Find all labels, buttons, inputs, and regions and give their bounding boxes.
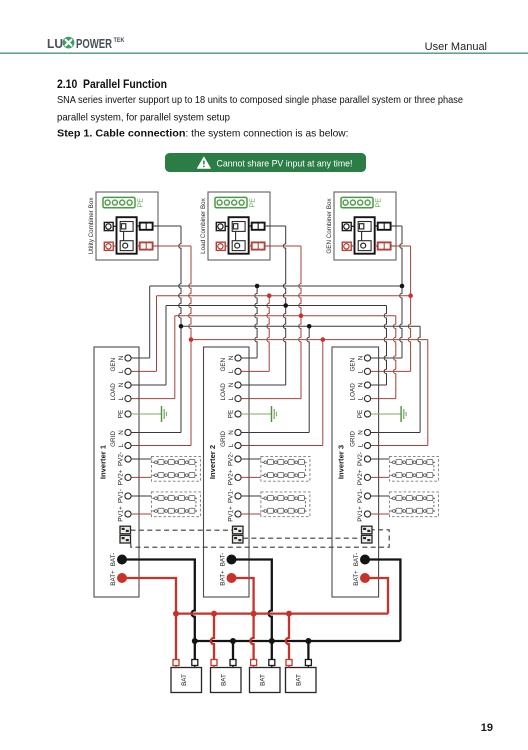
- svg-text:N: N: [228, 430, 235, 435]
- battery BAT2 negative terminal: [230, 660, 236, 668]
- svg-text:PV2-: PV2-: [357, 452, 364, 466]
- svg-text:BAT+: BAT+: [110, 570, 117, 586]
- Inverter 1 terminal BAT-: [110, 553, 127, 567]
- svg-text:PE: PE: [357, 410, 364, 418]
- Inverter 2 terminal BAT+: [220, 570, 237, 586]
- PV1 array inverter 2 string row 1: [262, 496, 307, 501]
- svg-text:PE: PE: [228, 410, 235, 418]
- Inverter 1 terminal BAT+: [110, 570, 127, 586]
- svg-text:L: L: [118, 369, 125, 373]
- svg-text:BAT-: BAT-: [220, 553, 227, 567]
- svg-text:BAT: BAT: [296, 674, 303, 686]
- Inverter 3 terminal L at y=398.6: [358, 396, 371, 402]
- PV2 array inverter 2 series link: [304, 465, 306, 472]
- svg-text:PV2+: PV2+: [357, 469, 364, 485]
- Inverter 3 terminal BAT-: [353, 553, 370, 567]
- svg-text:GEN: GEN: [220, 357, 227, 371]
- Inverter 1 terminal N at y=385.0: [118, 382, 131, 388]
- Inverter 3 terminal L at y=371.4: [358, 368, 371, 374]
- Inverter 1 terminal N at y=432.5: [118, 429, 131, 435]
- comm cable inverter1 portA to inverter2 portA: [131, 529, 233, 531]
- Inverter 3 terminal PV2+ at y=477.4: [357, 469, 370, 485]
- Inverter 3 parallel comm port A: [362, 526, 373, 534]
- svg-text:User Manual: User Manual: [425, 41, 487, 53]
- Inverter 3 terminal PE at y=414.0: [357, 410, 370, 418]
- wire net GEN-L: bus and drops: [131, 246, 413, 371]
- PV2 array inverter 2 string row 1: [262, 460, 307, 465]
- battery BAT1 positive terminal: [173, 660, 179, 668]
- PV2 array inverter 2 wires to inverter: [241, 459, 261, 477]
- battery BAT3 negative terminal: [269, 660, 275, 668]
- Inverter 2 terminal PV1+ at y=514.0: [228, 506, 241, 522]
- Inverter 2 terminal L at y=371.4: [228, 368, 241, 374]
- Inverter 2 terminal PE at y=414.0: [228, 410, 241, 418]
- utility combiner box: [96, 192, 158, 260]
- svg-text:LOAD: LOAD: [220, 383, 227, 401]
- svg-text:Load Combiner Box: Load Combiner Box: [200, 197, 207, 254]
- Inverter 3 terminal PV2- at y=459.0: [357, 452, 370, 466]
- PV1 array inverter 3 wires to inverter: [371, 496, 390, 514]
- GEN Combiner Box input connector N: [342, 222, 354, 230]
- Inverter 2 terminal BAT-: [220, 553, 237, 567]
- svg-text:N: N: [358, 355, 365, 360]
- wire inverter3 BAT- to bus: [365, 560, 400, 642]
- svg-text:BAT-: BAT-: [110, 553, 117, 567]
- Inverter 3 terminal PV1+ at y=514.0: [357, 506, 370, 522]
- battery BAT3: [250, 668, 281, 693]
- Load Combiner Box PE terminal bar: [215, 197, 257, 207]
- svg-text:N: N: [228, 382, 235, 387]
- Inverter 1 parallel comm port A: [120, 526, 131, 534]
- Load Combiner Box input connector N: [216, 222, 228, 230]
- svg-text:N: N: [358, 382, 365, 387]
- svg-text:GRID: GRID: [350, 431, 357, 447]
- svg-text:PV2-: PV2-: [228, 452, 235, 466]
- svg-text:PV2-: PV2-: [118, 452, 125, 466]
- PV2 array inverter 1 series link: [195, 465, 197, 472]
- Inverter 2 terminal L at y=398.6: [228, 396, 241, 402]
- svg-text:PE: PE: [136, 198, 145, 208]
- Inverter 1 parallel comm port B: [120, 535, 131, 543]
- svg-text:Inverter 2: Inverter 2: [208, 445, 217, 479]
- svg-text:PV1-: PV1-: [228, 489, 235, 503]
- battery BAT1: [171, 668, 202, 693]
- battery BAT2: [211, 668, 242, 693]
- svg-text:POWER: POWER: [76, 37, 112, 51]
- Load Combiner Box output terminal L: [249, 242, 270, 249]
- svg-text:BAT+: BAT+: [220, 570, 227, 586]
- svg-text:GEN Combiner Box: GEN Combiner Box: [326, 198, 333, 254]
- battery BAT4 positive terminal: [286, 660, 292, 668]
- PV2 array inverter 3 string row 1: [390, 460, 435, 465]
- Load Combiner Box input connector L: [216, 242, 228, 250]
- Inverter 1 PE wire and ground: [131, 406, 166, 422]
- Utility Combiner Box output terminal N: [137, 223, 158, 230]
- PV1 array inverter 3 series link: [433, 501, 435, 508]
- wire net GRID-N: utility bus and drops: [131, 226, 420, 433]
- svg-text:PV1+: PV1+: [228, 506, 235, 522]
- svg-text:GEN: GEN: [110, 357, 117, 371]
- svg-text:PV1-: PV1-: [118, 489, 125, 503]
- wire inverter3 BAT+ to bus: [365, 578, 388, 614]
- Inverter 1 terminal N at y=358.0: [118, 355, 131, 361]
- Inverter 2 terminal N at y=432.5: [228, 429, 241, 435]
- junction dots positive bus: [173, 611, 292, 617]
- comm cable inverter1 portB to inverter3 portA: [131, 530, 389, 547]
- wire net GEN-N: bus and drops: [131, 226, 404, 358]
- Utility Combiner Box input connector L: [104, 242, 116, 250]
- svg-text:GRID: GRID: [110, 431, 117, 447]
- svg-text:L: L: [358, 369, 365, 373]
- Inverter 3 terminal N at y=432.5: [358, 429, 371, 435]
- svg-text:L: L: [358, 443, 365, 447]
- Inverter 3 terminal BAT+: [353, 570, 370, 586]
- svg-text:L: L: [118, 443, 125, 447]
- svg-text:2.10 Parallel Function: 2.10 Parallel Function: [57, 77, 167, 91]
- svg-text:BAT: BAT: [181, 674, 188, 686]
- Load Combiner Box breaker: [229, 217, 249, 254]
- GEN combiner box: [334, 192, 396, 260]
- header rule: [0, 52, 528, 54]
- PV2 array inverter 3 string row 2: [390, 473, 435, 478]
- svg-text:PV1+: PV1+: [118, 506, 125, 522]
- svg-text:BAT: BAT: [221, 674, 228, 686]
- svg-text:N: N: [118, 382, 125, 387]
- logo LuxPowerTek: [47, 37, 125, 51]
- PV1 array inverter 3 string row 1: [390, 496, 435, 501]
- Inverter 3 terminal L at y=445.5: [358, 442, 371, 448]
- GEN Combiner Box breaker: [355, 217, 375, 254]
- Inverter 3 body: [332, 347, 379, 597]
- comm cable inverter2 portB to inverter3 portB: [243, 537, 362, 539]
- svg-text:L: L: [228, 396, 235, 400]
- PV2 array inverter 1 dashed enclosure: [151, 456, 200, 481]
- PV2 array inverter 2 string row 2: [262, 473, 307, 478]
- battery BAT4: [286, 668, 317, 693]
- GEN Combiner Box PE terminal bar: [341, 197, 383, 207]
- svg-text:PV2+: PV2+: [118, 469, 125, 485]
- Inverter 3 terminal N at y=385.0: [358, 382, 371, 388]
- battery negative bus: [195, 640, 401, 642]
- svg-text:LOAD: LOAD: [110, 383, 117, 401]
- PV2 array inverter 3 dashed enclosure: [389, 456, 438, 481]
- wire net GRID-L: utility bus and drops: [131, 246, 428, 446]
- svg-text:PE: PE: [374, 198, 383, 208]
- Inverter 3 parallel comm port B: [362, 535, 373, 543]
- Inverter 3 PE wire and ground: [371, 406, 406, 422]
- PV1 array inverter 3 dashed enclosure: [389, 492, 438, 517]
- wire inverter2 BAT+ to bus: [232, 578, 254, 614]
- Utility Combiner Box PE terminal bar: [103, 197, 145, 207]
- svg-text:Step 1. Cable connection: the: Step 1. Cable connection: the system con…: [57, 129, 349, 140]
- svg-text:N: N: [118, 355, 125, 360]
- PV2 array inverter 3 wires to inverter: [371, 459, 390, 477]
- Inverter 1 terminal L at y=371.4: [118, 368, 131, 374]
- svg-text:Inverter 1: Inverter 1: [99, 444, 108, 479]
- Inverter 2 terminal PV1- at y=496.0: [228, 489, 241, 503]
- PV1 array inverter 1 series link: [195, 501, 197, 508]
- svg-text:Inverter 3: Inverter 3: [337, 445, 346, 479]
- svg-text:L: L: [358, 396, 365, 400]
- PV2 array inverter 1 wires to inverter: [131, 459, 151, 477]
- Inverter 2 body: [204, 347, 250, 597]
- PV1 array inverter 2 wires to inverter: [241, 496, 261, 514]
- Utility Combiner Box output terminal L: [137, 242, 158, 249]
- battery BAT1 negative terminal: [192, 660, 198, 668]
- wire net LOAD-L: bus and drops: [131, 246, 396, 399]
- svg-text:LOAD: LOAD: [350, 383, 357, 401]
- svg-text:N: N: [358, 430, 365, 435]
- svg-text:L: L: [228, 443, 235, 447]
- wire inverter1 BAT- to bus: [122, 560, 195, 642]
- Inverter 2 terminal PV2+ at y=477.4: [228, 469, 241, 485]
- PV1 array inverter 3 string row 2: [390, 508, 435, 513]
- battery drops negative: [195, 641, 309, 660]
- PV1 array inverter 1 wires to inverter: [131, 496, 151, 514]
- Inverter 3 terminal N at y=358.0: [358, 355, 371, 361]
- svg-text:parallel system, for parallel: parallel system, for parallel system set…: [57, 113, 230, 124]
- Inverter 1 terminal PV2+ at y=477.4: [118, 469, 131, 485]
- Inverter 1 terminal PV1- at y=496.0: [118, 489, 131, 503]
- Inverter 1 terminal PE at y=414.0: [118, 410, 131, 418]
- Inverter 2 terminal N at y=358.0: [228, 355, 241, 361]
- svg-text:BAT-: BAT-: [353, 553, 360, 567]
- Inverter 1 body: [94, 347, 139, 597]
- svg-text:L: L: [228, 369, 235, 373]
- svg-text:SNA series inverter support up: SNA series inverter support up to 18 uni…: [57, 95, 463, 106]
- svg-text:Utility Combiner Box: Utility Combiner Box: [88, 197, 95, 255]
- Inverter 1 terminal L at y=445.5: [118, 442, 131, 448]
- Inverter 3 terminal PV1- at y=496.0: [357, 489, 370, 503]
- Inverter 2 terminal PV2- at y=459.0: [228, 452, 241, 466]
- svg-text:19: 19: [481, 722, 493, 734]
- svg-text:PV2+: PV2+: [228, 469, 235, 485]
- svg-text:PV1+: PV1+: [357, 506, 364, 522]
- Inverter 2 parallel comm port A: [233, 526, 244, 534]
- PV1 array inverter 1 string row 1: [152, 496, 197, 501]
- GEN Combiner Box input connector L: [342, 242, 354, 250]
- svg-text:N: N: [228, 355, 235, 360]
- junction dots negative bus: [192, 638, 312, 644]
- svg-text:N: N: [118, 430, 125, 435]
- PV2 array inverter 1 string row 1: [152, 460, 197, 465]
- svg-text:L: L: [118, 396, 125, 400]
- battery BAT3 positive terminal: [251, 660, 257, 668]
- Load Combiner Box output terminal N: [249, 223, 270, 230]
- svg-text:BAT: BAT: [260, 674, 267, 686]
- GEN Combiner Box output terminal N: [375, 223, 396, 230]
- battery BAT2 positive terminal: [211, 660, 217, 668]
- svg-text:BAT+: BAT+: [353, 570, 360, 586]
- Inverter 2 PE wire and ground: [241, 406, 276, 422]
- battery BAT4 negative terminal: [305, 660, 311, 668]
- Inverter 2 terminal N at y=385.0: [228, 382, 241, 388]
- Inverter 1 terminal PV2- at y=459.0: [118, 452, 131, 466]
- PV1 array inverter 2 series link: [304, 501, 306, 508]
- Inverter 1 terminal PV1+ at y=514.0: [118, 506, 131, 522]
- svg-text:GRID: GRID: [220, 431, 227, 447]
- wire inverter2 BAT- to bus: [232, 560, 272, 642]
- Inverter 2 parallel comm port B: [233, 535, 244, 543]
- svg-text:PE: PE: [118, 410, 125, 418]
- svg-text:PE: PE: [248, 198, 257, 208]
- PV1 array inverter 2 string row 2: [262, 508, 307, 513]
- battery drops positive: [176, 614, 289, 660]
- svg-text:GEN: GEN: [350, 357, 357, 371]
- wire net LOAD-N: bus and drops: [131, 226, 386, 385]
- svg-text:Cannot share PV input at any t: Cannot share PV input at any time!: [217, 158, 353, 168]
- PV2 array inverter 3 series link: [433, 465, 435, 472]
- wire inverter1 BAT+ to bus: [122, 578, 176, 614]
- Inverter 2 terminal L at y=445.5: [228, 442, 241, 448]
- svg-text:LU: LU: [47, 37, 63, 51]
- warning banner: Cannot share PV input at any time!: [165, 153, 366, 172]
- svg-text:TEK: TEK: [114, 37, 125, 44]
- load combiner box: [208, 192, 270, 260]
- PV2 array inverter 1 string row 2: [152, 473, 197, 478]
- Utility Combiner Box input connector N: [104, 222, 116, 230]
- GEN Combiner Box output terminal L: [375, 242, 396, 249]
- battery positive bus: [176, 612, 388, 614]
- Utility Combiner Box breaker: [117, 217, 137, 254]
- PV2 array inverter 2 dashed enclosure: [261, 456, 310, 481]
- PV1 array inverter 1 string row 2: [152, 508, 197, 513]
- Inverter 1 terminal L at y=398.6: [118, 396, 131, 402]
- svg-text:PV1-: PV1-: [357, 489, 364, 503]
- PV1 array inverter 1 dashed enclosure: [151, 492, 200, 517]
- PV1 array inverter 2 dashed enclosure: [261, 492, 310, 517]
